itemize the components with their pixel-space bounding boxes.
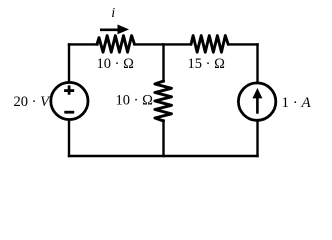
svg-text:i: i [111, 6, 115, 21]
svg-text:15 · Ω: 15 · Ω [188, 56, 226, 72]
svg-text:1 · A: 1 · A [282, 95, 312, 111]
svg-text:10 · Ω: 10 · Ω [97, 56, 135, 72]
svg-text:10 · Ω: 10 · Ω [116, 93, 154, 109]
svg-text:20 · V: 20 · V [14, 94, 52, 110]
